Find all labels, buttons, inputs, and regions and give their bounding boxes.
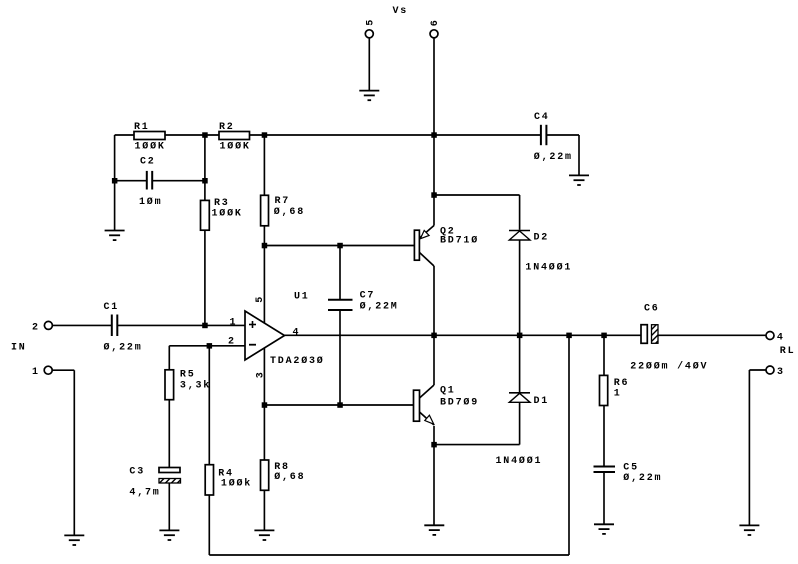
terminal 1 — [32, 366, 52, 378]
svg-text:4,7m: 4,7m — [129, 488, 160, 499]
resistor R4 — [205, 346, 252, 555]
junction Q1 base row / C7 — [337, 402, 343, 408]
svg-text:2: 2 — [32, 323, 40, 334]
svg-text:RL: RL — [780, 346, 796, 357]
svg-text:1Øm: 1Øm — [139, 196, 162, 208]
wire pin1 row — [52, 324, 111, 326]
junction base row / pin5 — [262, 243, 268, 249]
junction output / R6 — [601, 333, 607, 339]
junction Q2 emitter / D2 branch — [431, 192, 437, 198]
svg-text:BD71Ø: BD71Ø — [440, 235, 479, 247]
wire C4 to ground — [546, 134, 579, 136]
diode D2 — [509, 231, 572, 274]
wire Q2 emitter branch y=195 to D2 — [434, 194, 520, 196]
resistor R1 — [134, 122, 166, 153]
junction output / collectors — [431, 333, 437, 339]
ground (left, under C2 branch) — [105, 231, 125, 241]
terminal 5 — [365, 18, 376, 38]
op-amp U1 — [228, 295, 325, 378]
ground (under R8) — [254, 530, 274, 540]
capacitor C1 — [104, 302, 143, 354]
ground (under terminal 5) — [359, 91, 379, 101]
svg-text:22ØØm /4ØV: 22ØØm /4ØV — [630, 360, 708, 372]
ground (under C4) — [569, 175, 589, 185]
capacitor C7 — [328, 291, 399, 313]
svg-text:1ØØK: 1ØØK — [220, 141, 251, 153]
wire C2 row — [115, 180, 146, 182]
capacitor C4 — [534, 112, 573, 163]
svg-text:Q1: Q1 — [440, 385, 456, 396]
wire top bus y=135 — [115, 134, 541, 136]
svg-text:4: 4 — [777, 332, 785, 343]
junction top bus / R3 — [202, 132, 208, 138]
svg-text:Vs: Vs — [393, 6, 409, 17]
ground (under Q1) — [424, 525, 444, 535]
terminal 6 — [430, 18, 441, 37]
resistor R6 — [600, 335, 630, 466]
svg-text:3,3k: 3,3k — [180, 380, 211, 392]
svg-text:D2: D2 — [534, 232, 550, 243]
junction Q1 base row / pin3 — [262, 402, 268, 408]
wire Q1 base row y=405 — [264, 404, 413, 406]
ground (under C3) — [159, 530, 179, 540]
ground (under terminal 3) — [739, 525, 759, 535]
svg-text:R5: R5 — [180, 370, 196, 381]
resistor R8 — [261, 460, 306, 490]
capacitor C2 — [139, 156, 162, 208]
wire C3 to ground — [168, 483, 170, 530]
wire left drop x=114.6 — [114, 135, 116, 231]
wire terminal1 to ground — [52, 369, 74, 371]
svg-text:5: 5 — [255, 295, 266, 303]
svg-text:1N4ØØ1: 1N4ØØ1 — [496, 455, 543, 467]
svg-text:C3: C3 — [129, 467, 145, 478]
junction pin2 / R4 — [207, 343, 213, 349]
junction output / diode chain — [517, 333, 523, 339]
wire terminal3 to ground — [749, 369, 766, 371]
svg-text:C4: C4 — [534, 112, 550, 123]
svg-text:Ø,22M: Ø,22M — [360, 301, 399, 313]
wire Q2 collector to Q1 collector — [433, 266, 435, 385]
svg-text:Ø,22m: Ø,22m — [534, 151, 573, 163]
wire terminal5 to ground — [368, 38, 370, 91]
svg-text:C2: C2 — [140, 156, 156, 167]
svg-text:BD7Ø9: BD7Ø9 — [440, 397, 479, 409]
svg-text:TDA2Ø3Ø: TDA2Ø3Ø — [270, 355, 325, 367]
svg-text:C1: C1 — [104, 302, 120, 313]
svg-text:R6: R6 — [614, 378, 630, 389]
wire D1 bottom to Q1 emitter — [519, 402, 521, 444]
diode D1 — [496, 393, 550, 467]
svg-text:1N4ØØ1: 1N4ØØ1 — [525, 261, 572, 273]
transistor Q2 — [414, 226, 479, 267]
wire terminal6 down to Q2 emitter — [433, 38, 435, 226]
svg-text:1ØØK: 1ØØK — [212, 207, 243, 219]
terminal 2 — [32, 321, 52, 333]
wire R3 branch x=204.9 — [204, 135, 206, 325]
junction base row / C7 — [337, 243, 343, 249]
wire pin3 / R8 branch — [263, 348, 265, 530]
capacitor C3 — [129, 467, 180, 499]
svg-text:C5: C5 — [623, 462, 639, 473]
svg-text:Ø,22m: Ø,22m — [104, 341, 143, 353]
wire D2 to D1 x=519.6 — [519, 240, 521, 392]
svg-text:4: 4 — [293, 327, 301, 338]
wire R7 branch x=264.4 — [263, 135, 265, 323]
resistor R3 — [201, 198, 243, 230]
svg-text:Ø,68: Ø,68 — [274, 471, 305, 483]
terminal 4 — [766, 332, 785, 344]
svg-text:U1: U1 — [294, 291, 310, 302]
wire feedback bottom — [209, 554, 569, 556]
junction C2 right — [202, 178, 208, 184]
svg-text:Ø,22m: Ø,22m — [623, 472, 662, 484]
resistor R2 — [219, 122, 251, 153]
svg-text:C7: C7 — [360, 291, 376, 302]
svg-text:1ØØK: 1ØØK — [135, 141, 166, 153]
svg-text:3: 3 — [777, 367, 785, 378]
svg-text:IN: IN — [11, 343, 27, 354]
svg-text:D1: D1 — [534, 396, 550, 407]
junction top bus / terminal 6 wire — [431, 132, 437, 138]
wire pin2 row — [169, 345, 245, 347]
junction C2 left — [112, 178, 118, 184]
svg-text:5: 5 — [365, 18, 376, 26]
wire C7 leads x=340 — [339, 246, 341, 300]
svg-text:1: 1 — [230, 317, 238, 328]
resistor R7 — [261, 195, 305, 226]
wire C5 to ground — [603, 472, 605, 524]
svg-text:R7: R7 — [275, 196, 291, 207]
svg-text:R2: R2 — [219, 122, 235, 133]
svg-text:6: 6 — [430, 18, 441, 26]
resistor R5 — [165, 346, 211, 468]
wire Q1 emitter down — [433, 426, 435, 525]
transistor Q1 — [414, 385, 480, 425]
junction Q1 emitter / D1 row — [431, 442, 437, 448]
wire Q2 base row y=245.5 — [264, 245, 414, 247]
ground (under C5) — [594, 524, 614, 534]
capacitor C5 — [594, 462, 663, 484]
svg-text:1ØØk: 1ØØk — [221, 477, 252, 489]
junction pin1 row / R3 — [202, 323, 208, 329]
wire C6 to terminal 4 — [658, 334, 766, 336]
svg-text:1: 1 — [614, 388, 622, 399]
terminal 3 — [766, 366, 785, 378]
ground (input) — [64, 535, 84, 545]
wire output bus y=335.3 — [285, 334, 642, 336]
junction top bus / R7 — [262, 132, 268, 138]
capacitor C6 — [630, 304, 708, 373]
svg-text:R1: R1 — [134, 122, 150, 133]
svg-text:1: 1 — [32, 367, 40, 378]
svg-text:2: 2 — [228, 336, 236, 347]
junction output / feedback — [566, 333, 572, 339]
svg-text:Ø,68: Ø,68 — [274, 206, 305, 218]
svg-text:C6: C6 — [644, 304, 660, 315]
